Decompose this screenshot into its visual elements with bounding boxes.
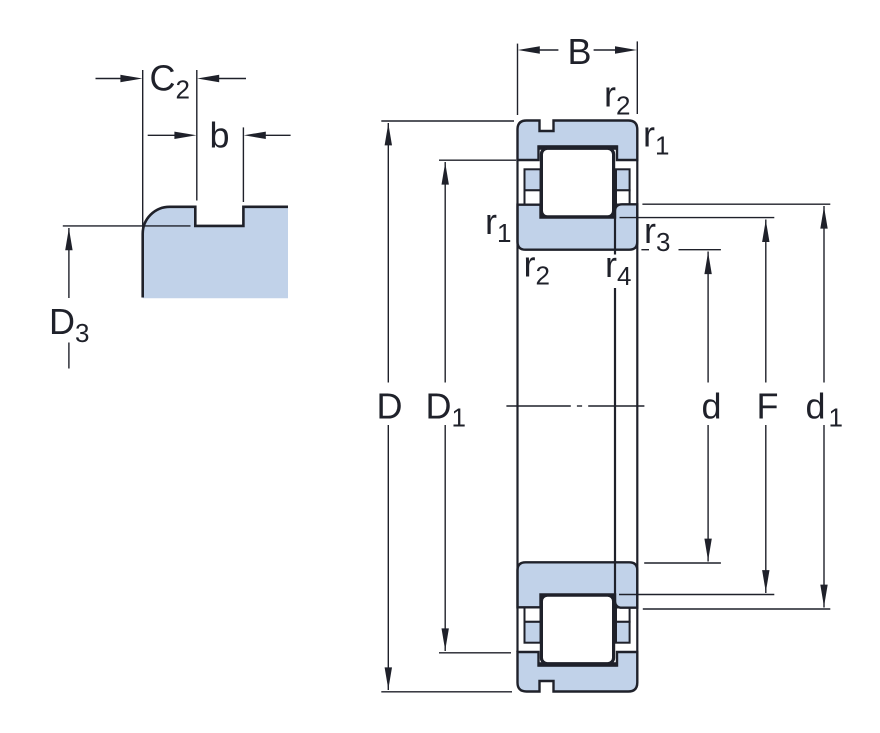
centerline <box>506 405 644 407</box>
svg-text:D: D <box>377 386 403 427</box>
svg-text:F: F <box>757 386 779 427</box>
svg-text:D1: D1 <box>426 386 466 433</box>
d vertical with arrows <box>707 252 709 383</box>
D1 dimension: extension lines <box>439 159 516 161</box>
D3 reference line (groove bottom level) <box>63 225 191 227</box>
loose flange ring split line (top) <box>614 204 616 251</box>
inner ring (bottom) <box>518 562 638 607</box>
D3 arrow line <box>68 228 70 298</box>
D dimension: extension lines <box>381 120 514 122</box>
outer ring (bottom) <box>518 652 638 692</box>
outer ring (top) with snap ring notch <box>518 121 638 161</box>
svg-text:d1: d1 <box>806 386 843 433</box>
svg-text:B: B <box>568 31 592 72</box>
bore silhouette verticals between sections <box>516 159 518 652</box>
roller (top) <box>538 145 617 149</box>
b extension line (right groove wall) <box>242 127 244 202</box>
F dimension: extension lines <box>620 217 775 219</box>
inner ring (top) with flanges <box>518 204 638 249</box>
d dimension: extension lines (top has gap for r3 label) <box>641 249 649 251</box>
detail outline <box>143 207 288 298</box>
cage bar left (bottom section) <box>525 622 541 643</box>
F vertical with arrows <box>765 220 767 383</box>
cage bar right (top section) <box>616 169 630 190</box>
C2 dimension arrows <box>96 78 129 80</box>
cage bar left (top section) <box>525 169 541 190</box>
D dimension vertical with arrows <box>387 123 389 383</box>
d1 vertical with arrows <box>823 206 825 383</box>
svg-text:C2: C2 <box>150 58 190 105</box>
svg-text:r1: r1 <box>485 201 511 248</box>
svg-text:r1: r1 <box>643 114 669 161</box>
C2 extension lines <box>142 70 144 234</box>
d1 dimension: extension lines <box>642 203 830 205</box>
B dimension line and arrows <box>518 46 540 53</box>
b dimension arrows <box>148 134 182 136</box>
svg-text:d: d <box>702 386 722 427</box>
roller (bottom) <box>538 662 617 666</box>
D1 vertical with arrows <box>444 162 446 383</box>
svg-text:D3: D3 <box>49 301 89 348</box>
svg-text:b: b <box>210 115 230 156</box>
loose flange ring split line (bottom) <box>614 561 616 608</box>
B extension lines <box>517 44 519 115</box>
svg-text:r2: r2 <box>604 74 630 121</box>
loose ring face line with gap for r4 label <box>614 251 616 255</box>
outer-ring snap-ring groove detail, blue section fill <box>143 207 288 298</box>
cage bar right (bottom section) <box>616 622 630 643</box>
